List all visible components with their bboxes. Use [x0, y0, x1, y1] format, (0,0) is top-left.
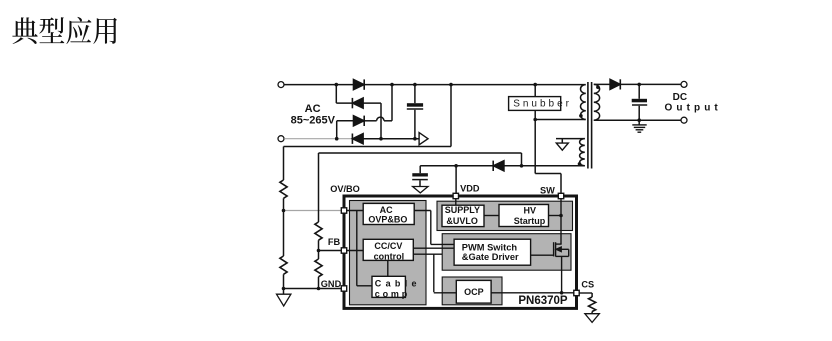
svg-text:GND: GND	[321, 279, 342, 289]
svg-text:Output: Output	[665, 103, 722, 114]
svg-text:comp: comp	[375, 289, 410, 299]
svg-text:CS: CS	[581, 279, 594, 289]
svg-text:OV/BO: OV/BO	[330, 184, 360, 194]
svg-text:SUPPLY: SUPPLY	[445, 205, 480, 215]
svg-text:&Gate Driver: &Gate Driver	[462, 252, 519, 262]
svg-text:VDD: VDD	[460, 183, 480, 193]
svg-text:PWM Switch: PWM Switch	[462, 242, 518, 252]
svg-text:Snubber: Snubber	[513, 99, 572, 110]
svg-text:control: control	[374, 252, 405, 262]
svg-text:OVP&BO: OVP&BO	[368, 215, 407, 225]
svg-text:SW: SW	[540, 186, 555, 196]
svg-text:AC: AC	[305, 103, 321, 115]
svg-text:&UVLO: &UVLO	[446, 216, 478, 226]
svg-text:Startup: Startup	[514, 216, 546, 226]
svg-text:OCP: OCP	[464, 287, 484, 297]
svg-text:HV: HV	[524, 206, 537, 216]
svg-text:FB: FB	[328, 237, 341, 247]
svg-text:CC/CV: CC/CV	[374, 241, 402, 251]
svg-text:AC: AC	[380, 205, 393, 215]
svg-text:Cable: Cable	[375, 278, 421, 288]
svg-text:DC: DC	[673, 92, 687, 103]
svg-text:85~265V: 85~265V	[291, 115, 336, 127]
svg-text:PN6370P: PN6370P	[518, 295, 568, 307]
